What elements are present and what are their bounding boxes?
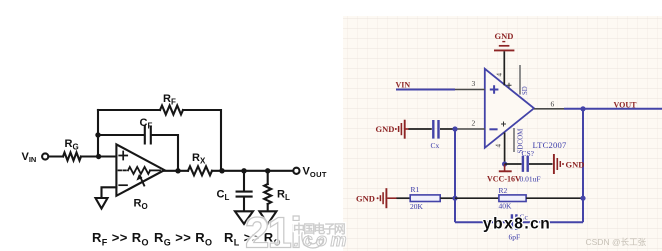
svg-text:SD: SD [522, 86, 529, 95]
junction node R2/output [580, 196, 585, 201]
svg-text:RO: RO [134, 198, 148, 212]
pin + mark (V- bottom) [501, 122, 506, 127]
resistor R1 [410, 195, 440, 202]
wire RO to apex [150, 169, 160, 171]
resistor RF [160, 106, 183, 115]
node RL junction dot [265, 168, 270, 173]
wire GND to R1 [397, 197, 411, 199]
ground (op-amp minus) [96, 198, 108, 209]
resistor RL [264, 184, 271, 204]
svg-text:40K: 40K [499, 202, 513, 211]
svg-text:CS?: CS? [522, 149, 535, 158]
svg-text:GND: GND [566, 160, 585, 170]
wire op-amp output [164, 170, 188, 172]
junction node R1/R2 [452, 196, 457, 201]
svg-text:R2: R2 [499, 186, 508, 195]
wire node to CS [505, 163, 522, 165]
wire RL to ground [267, 204, 269, 211]
wire V- pin down to supply node [504, 133, 506, 165]
wire RG to node A [81, 155, 116, 157]
ground (CL) [235, 211, 253, 224]
node CF junction dot [95, 132, 100, 137]
power port VCC-16V [499, 164, 512, 171]
wire node down to R1/R2 node [454, 129, 456, 222]
wire CF left [98, 134, 144, 136]
pin 3 [455, 89, 485, 91]
wire RF top left [98, 109, 160, 111]
capacitor CS? [523, 156, 528, 172]
capacitor CL [237, 192, 252, 197]
pin SDCOM [513, 128, 515, 152]
wire CF right [152, 135, 178, 171]
wire output node down [582, 109, 584, 222]
pin 6 [534, 108, 564, 110]
junction node pin2/Cx [452, 126, 457, 131]
junction node V-/CS [502, 161, 507, 166]
arrow to RO [140, 176, 144, 185]
watermark 21ic.com (halo layer) [245, 209, 350, 251]
node CL junction dot [241, 168, 246, 173]
op-amp U2 triangle [485, 69, 534, 148]
pin + mark (V+ top) [507, 83, 512, 88]
wire RF top right [183, 110, 221, 171]
svg-text:6pF: 6pF [509, 232, 521, 241]
svg-text:0.01uF: 0.01uF [520, 174, 541, 183]
svg-text:RX: RX [192, 152, 206, 166]
resistor RG [63, 153, 81, 161]
svg-text:CSDN @长工张: CSDN @长工张 [586, 237, 647, 247]
svg-text:LTC2007: LTC2007 [533, 140, 568, 150]
svg-text:RF >> RO: RF >> RO [92, 230, 149, 247]
wire node to R2 [455, 197, 499, 199]
GND power port (CS right) [554, 154, 564, 174]
capacitor Cx [433, 120, 438, 139]
ground (RL) [259, 211, 276, 224]
wire CL to ground [243, 198, 245, 211]
svg-text:VCC-16V: VCC-16V [487, 174, 521, 183]
svg-text:R1: R1 [411, 185, 420, 194]
svg-text:20K: 20K [410, 202, 424, 211]
node A junction dot [96, 154, 101, 159]
pin 2 [455, 128, 485, 130]
pin SD (shutdown) [519, 65, 521, 95]
wire output rail [212, 170, 293, 172]
svg-text:CL: CL [217, 189, 230, 203]
svg-text:VOUT: VOUT [614, 100, 638, 109]
svg-text:RG >> RO: RG >> RO [154, 230, 212, 247]
GND power port (Cx) [395, 120, 409, 139]
wire output pin6 to VOUT [564, 108, 662, 110]
wire CL branch [243, 171, 245, 191]
op-amp plus input mark [119, 152, 127, 160]
svg-text:4: 4 [495, 144, 503, 148]
schematic grid background (right panel) [343, 16, 662, 251]
wire R1 to node [440, 197, 455, 199]
wire RL branch [267, 171, 269, 184]
node RX/RF junction dot [219, 168, 224, 173]
svg-text:3: 3 [472, 79, 476, 88]
wire GND to V+ pin [503, 51, 505, 85]
watermark 21ic.com (outline layer) [245, 209, 350, 251]
junction node output [580, 106, 585, 111]
dashed internal line [119, 169, 129, 171]
GND power port (R1) [377, 188, 397, 208]
svg-text:4: 4 [496, 73, 504, 77]
GND power port (top) [494, 42, 514, 51]
wire minus input to ground [102, 187, 117, 197]
op-amp minus input mark [119, 184, 127, 186]
svg-text:ybx8.cn: ybx8.cn [483, 216, 551, 233]
wire node A riser [97, 110, 99, 157]
wire bottom loop left [455, 221, 511, 223]
svg-text:2: 2 [472, 118, 476, 127]
svg-text:6: 6 [551, 99, 555, 108]
svg-text:VIN: VIN [396, 80, 411, 89]
svg-text:Cx: Cx [431, 141, 440, 150]
terminal VIN [42, 153, 48, 159]
wire VIN [396, 89, 455, 91]
svg-text:VOUT: VOUT [303, 166, 327, 179]
wire Cx to node [440, 128, 455, 130]
capacitor CF [145, 127, 151, 144]
svg-text:RG: RG [65, 138, 79, 152]
node op-amp output dot [175, 168, 180, 173]
terminal VOUT [293, 168, 299, 174]
svg-text:VIN: VIN [22, 151, 37, 164]
svg-text:RF: RF [163, 93, 176, 107]
resistor R2 [499, 195, 526, 202]
svg-text:GND: GND [356, 193, 375, 203]
wire VIN to RG [49, 155, 64, 157]
svg-text:GND: GND [495, 31, 514, 41]
resistor RO (internal) [128, 167, 150, 174]
svg-text:RL: RL [277, 189, 290, 203]
svg-text:CF: CF [140, 117, 153, 131]
capacitor Cc [512, 214, 517, 230]
op-amp inverting - mark [489, 128, 497, 130]
svg-text:GND: GND [376, 124, 395, 134]
wire GND to Cx [409, 128, 432, 130]
resistor RX [188, 166, 212, 175]
wire CS to GND [529, 163, 553, 165]
svg-text:中国电子网: 中国电子网 [293, 221, 346, 236]
op-amp U1 [116, 144, 164, 195]
wire bottom loop right [517, 221, 583, 223]
wire R2 to output node [526, 197, 583, 199]
op-amp non-inverting + mark [490, 85, 499, 93]
